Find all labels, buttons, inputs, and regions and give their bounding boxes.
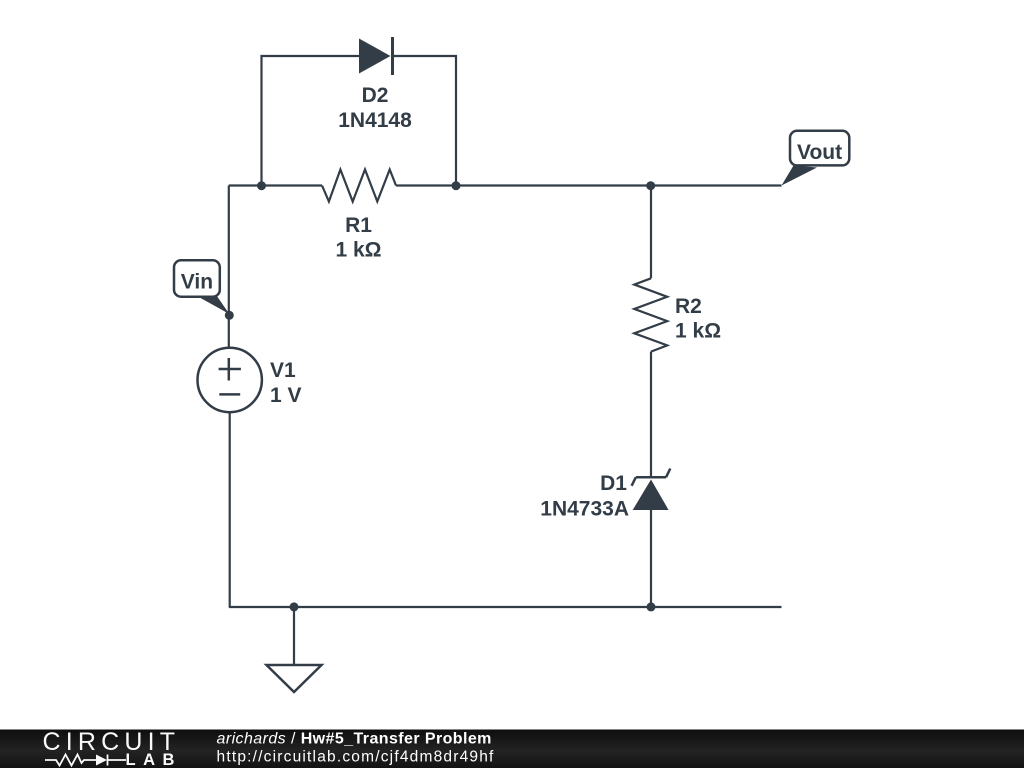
svg-text:V1: V1 [270,359,296,382]
svg-text:LAB: LAB [126,751,182,768]
wire below V1 [229,412,231,608]
svg-text:R2: R2 [675,295,702,318]
node ground junction [290,602,299,611]
svg-text:Vin: Vin [181,271,213,294]
svg-text:1N4733A: 1N4733A [540,498,629,521]
diode D2 [359,37,393,75]
node D1 bottom junction [647,602,656,611]
wire D1 to bottom [650,510,652,607]
wire R2 to D1 [650,352,652,477]
svg-text:D2: D2 [362,84,389,107]
svg-text:1 kΩ: 1 kΩ [335,239,381,262]
wire top loop left [262,56,360,186]
node Vin junction [225,311,234,320]
wire R2 top [650,186,652,279]
wire main horizontal left [229,184,322,186]
resistor R1 [322,170,396,202]
svg-text:1N4148: 1N4148 [338,109,412,132]
svg-text:arichards / Hw#5_Transfer Prob: arichards / Hw#5_Transfer Problem [217,731,492,748]
svg-text:1 V: 1 V [270,384,302,407]
voltage source V1 [198,348,262,412]
node B junction top-right [452,181,461,190]
wire main horizontal right [396,184,782,186]
svg-text:Vout: Vout [797,141,842,164]
node Vin flag [174,260,229,314]
svg-text:D1: D1 [600,472,627,495]
node A junction top-left [257,181,266,190]
node C junction Vout branch [646,181,655,190]
footer bar [0,730,1024,768]
resistor R2 [634,278,667,351]
logo schematic diode [96,755,107,766]
svg-text:http://circuitlab.com/cjf4dm8d: http://circuitlab.com/cjf4dm8dr49hf [217,749,495,766]
ground [267,607,322,692]
wire left vertical [228,186,230,350]
wire bottom horizontal [229,606,782,608]
node Vout flag [782,131,850,186]
wire top loop right [394,56,456,186]
zener diode D1 [632,469,671,511]
logo schematic resistor [45,755,126,766]
svg-text:1 kΩ: 1 kΩ [675,320,721,343]
svg-text:R1: R1 [345,214,372,237]
